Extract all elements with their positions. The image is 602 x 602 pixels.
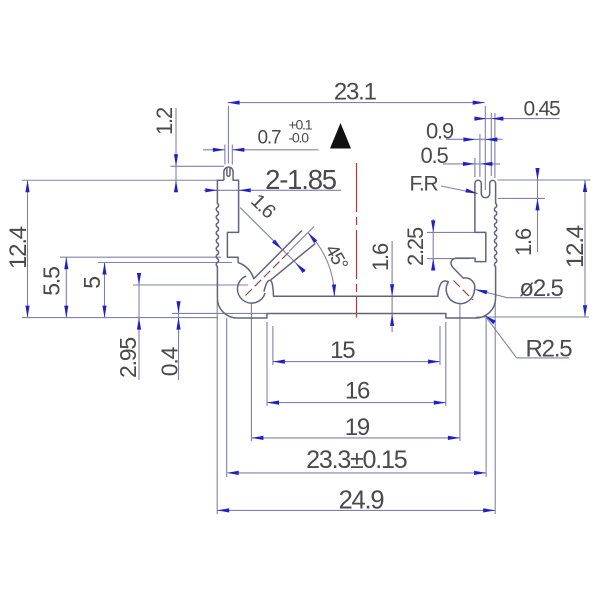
svg-text:12.4: 12.4 [562, 225, 589, 268]
tab slot [227, 168, 230, 176]
svg-text:2.95: 2.95 [115, 338, 141, 378]
svg-text:23.1: 23.1 [334, 79, 377, 106]
svg-text:0.4: 0.4 [157, 346, 183, 376]
vertical centerline [356, 163, 358, 318]
svg-text:1.6: 1.6 [511, 228, 536, 256]
svg-text:F.R: F.R [410, 173, 439, 196]
45 degree dimension arc [308, 233, 335, 297]
svg-text:ø2.5: ø2.5 [519, 275, 563, 302]
svg-text:2-1.85: 2-1.85 [265, 164, 337, 195]
svg-text:1.2: 1.2 [152, 107, 177, 135]
svg-text:19: 19 [345, 414, 370, 441]
left wall top tab with dome [224, 167, 302, 279]
surface finish triangle symbol [330, 123, 351, 149]
svg-text:5: 5 [79, 277, 105, 289]
dimension and extension lines [22, 103, 591, 514]
svg-text:16: 16 [345, 378, 370, 405]
svg-text:R2.5: R2.5 [526, 336, 573, 363]
channel line B [270, 243, 315, 280]
svg-text:15: 15 [330, 337, 355, 364]
svg-text:0.5: 0.5 [421, 143, 449, 168]
dimension arrowheads [228, 101, 240, 105]
svg-text:24.9: 24.9 [339, 486, 384, 514]
svg-text:0.45: 0.45 [523, 98, 560, 121]
left boss 45-degree axis centerline [246, 252, 290, 296]
svg-text:0.7: 0.7 [258, 128, 281, 149]
svg-text:12.4: 12.4 [5, 226, 32, 269]
svg-text:23.3±0.15: 23.3±0.15 [306, 446, 407, 474]
svg-text:0.9: 0.9 [426, 119, 454, 144]
svg-text:-0.0: -0.0 [289, 130, 310, 146]
aluminum profile outline [216, 167, 496, 318]
screw boss hole circle left [237, 276, 265, 303]
svg-text:1.6: 1.6 [368, 243, 393, 271]
svg-text:5.5: 5.5 [39, 267, 65, 296]
left wall outer edge with serrations, bottom and right wall [216, 180, 496, 318]
svg-text:2.25: 2.25 [403, 227, 428, 266]
right boss 45-degree axis centerline [454, 281, 474, 301]
